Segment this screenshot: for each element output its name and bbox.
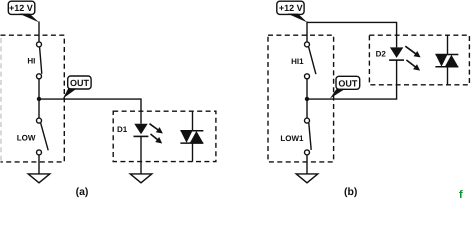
wire +12V to switch SW1 (a) [38,22,40,42]
wire diac top stub (a) [192,111,194,131]
svg-text:OUT: OUT [338,78,358,88]
wire OUT node to D1 (a) [39,99,141,124]
svg-text:HI: HI [27,56,35,65]
photo-diac right triangle (a) [190,131,204,143]
node HI contact circle (a) [37,42,42,47]
photo-diac bottom bar (a) [180,142,203,144]
node HI-LOW common contact circle (a) [37,74,42,79]
LED D1 triangle [134,124,147,135]
junction dot OUT node (a) [37,97,41,101]
svg-text:+12 V: +12 V [279,3,303,13]
switch lever LOW open (a) [41,123,49,150]
switch lever HI closed (a) [40,47,42,74]
svg-text:+12 V: +12 V [9,3,33,13]
switch dashed enclosure (a) [1,35,65,162]
wire +12V to switch (b) [306,22,308,42]
switch enclosure faint left edge (a) [0,38,2,162]
power flag +12 V (a) [8,1,39,22]
switch dashed enclosure (b) [268,35,334,162]
ground symbol switch (b) [296,174,318,183]
wire diac bottom stub (b) [447,67,449,85]
wire common to junction (b) [306,79,308,118]
LED D2 triangle [390,47,403,58]
wire common to junction (a) [38,79,40,118]
svg-text:D1: D1 [117,125,128,134]
photo-diac bottom bar (b) [435,66,458,68]
wire LOW contact to ground (a) [38,155,40,174]
wire OUT node to D2 cathode (b) [307,60,397,99]
svg-text:HI1: HI1 [291,57,304,66]
photo-diac left triangle (a) [181,131,193,143]
wire +12V rail to D2 (b) [307,22,397,47]
junction dot OUT node (b) [305,97,309,101]
optocoupler dashed enclosure (b) [369,35,469,85]
wire diac bottom stub (a) [192,143,194,162]
LED D1 emission arrow 1 [150,124,163,134]
svg-text:(a): (a) [76,186,89,198]
node LOW contact circle (a) [37,118,42,123]
wire diac top stub (b) [447,35,449,54]
node LOW1 bottom contact circle (b) [305,150,310,155]
switch lever LOW1 closed (b) [309,123,311,150]
wire LOW1 contact to ground (b) [306,155,308,174]
svg-text:OUT: OUT [70,78,90,88]
svg-text:(b): (b) [344,186,357,198]
wire D1 cathode to ground (a) [140,136,142,174]
photo-diac top bar (a) [180,130,203,132]
svg-text:D2: D2 [376,49,387,58]
svg-text:LOW1: LOW1 [280,134,304,143]
LED D2 emission arrow 2 [406,60,420,71]
svg-text:LOW: LOW [17,134,36,143]
LED D2 emission arrow 1 [405,46,420,57]
photo-diac right triangle (b) [445,55,459,67]
output flag OUT (b) [330,76,360,98]
ground symbol D1 (a) [130,174,152,183]
photo-diac left triangle (b) [436,55,448,67]
node LOW bottom contact circle (a) [37,150,42,155]
LED D2 cathode bar [389,59,404,61]
LED D1 cathode bar [134,135,149,137]
watermark green f [459,189,463,201]
power flag +12 V (b) [277,1,307,22]
output flag OUT (a) [63,76,91,99]
switch lever HI1 open (b) [309,47,316,74]
LED D1 emission arrow 2 [151,134,163,144]
node HI1 bottom contact circle (b) [305,74,310,79]
optocoupler dashed enclosure (a) [113,111,216,161]
node LOW1 contact circle (b) [305,118,310,123]
node HI1 contact circle (b) [305,42,310,47]
photo-diac top bar (b) [435,54,458,56]
ground symbol switch (a) [28,174,50,183]
